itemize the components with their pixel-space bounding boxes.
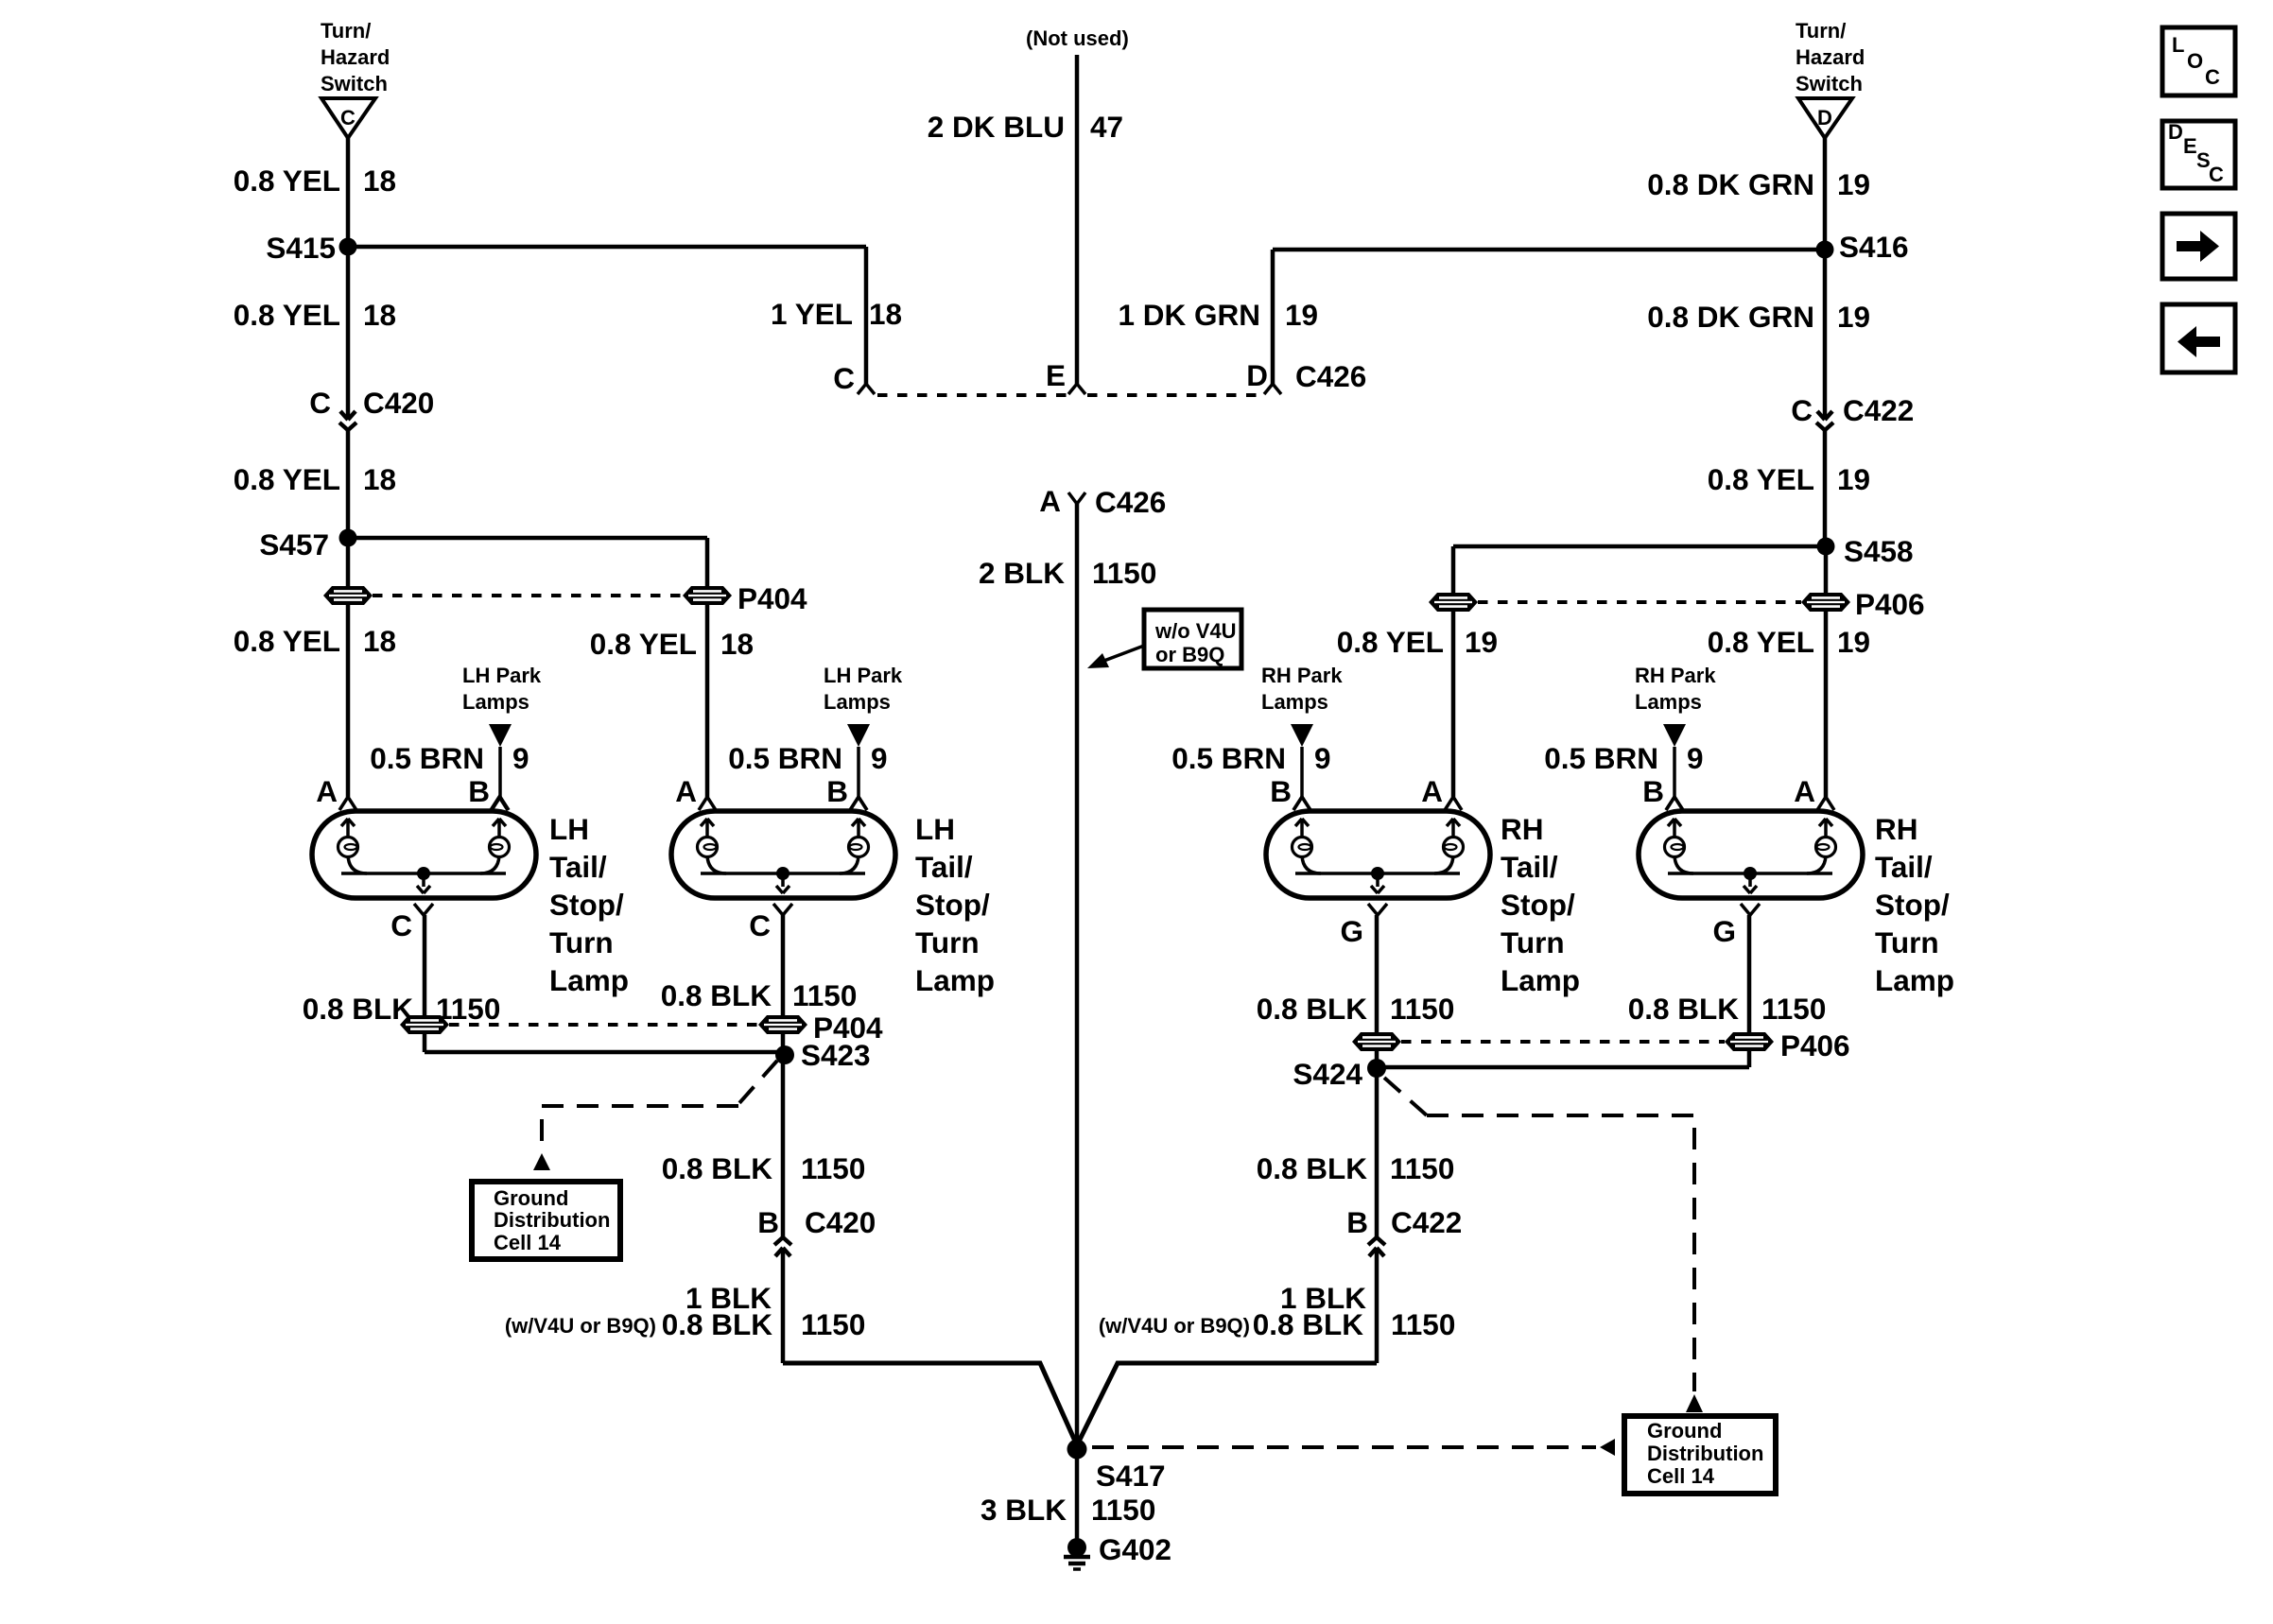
svg-text:O: O bbox=[2187, 49, 2203, 73]
svg-text:47: 47 bbox=[1090, 110, 1123, 144]
svg-text:Lamps: Lamps bbox=[824, 690, 891, 714]
svg-text:LH Park: LH Park bbox=[824, 664, 903, 687]
svg-text:Turn/: Turn/ bbox=[321, 19, 371, 43]
svg-text:0.8 YEL: 0.8 YEL bbox=[234, 164, 340, 198]
svg-text:Turn/: Turn/ bbox=[1796, 19, 1846, 43]
svg-text:Switch: Switch bbox=[321, 72, 388, 95]
svg-text:A: A bbox=[1421, 774, 1443, 808]
svg-text:9: 9 bbox=[871, 741, 888, 775]
svg-text:Turn: Turn bbox=[1501, 925, 1565, 959]
svg-text:C: C bbox=[749, 908, 771, 942]
svg-text:Lamp: Lamp bbox=[549, 963, 629, 997]
svg-text:1150: 1150 bbox=[1390, 1151, 1454, 1185]
svg-text:Lamps: Lamps bbox=[1635, 690, 1702, 714]
svg-text:0.8 YEL: 0.8 YEL bbox=[1708, 625, 1814, 659]
svg-text:Cell 14: Cell 14 bbox=[494, 1231, 562, 1254]
svg-text:Lamp: Lamp bbox=[915, 963, 995, 997]
svg-text:Cell 14: Cell 14 bbox=[1647, 1464, 1715, 1488]
svg-text:Tail/: Tail/ bbox=[915, 850, 973, 884]
svg-text:Distribution: Distribution bbox=[494, 1208, 610, 1232]
svg-text:0.8 DK GRN: 0.8 DK GRN bbox=[1647, 300, 1814, 334]
svg-text:D: D bbox=[1817, 106, 1832, 130]
svg-text:2 DK BLU: 2 DK BLU bbox=[928, 110, 1065, 144]
svg-text:9: 9 bbox=[1687, 741, 1704, 775]
svg-text:P406: P406 bbox=[1855, 587, 1925, 621]
svg-text:0.8 BLK: 0.8 BLK bbox=[303, 992, 414, 1026]
svg-text:or B9Q: or B9Q bbox=[1155, 643, 1224, 666]
svg-text:C: C bbox=[833, 361, 855, 395]
svg-text:1150: 1150 bbox=[1391, 1307, 1455, 1341]
svg-text:B: B bbox=[1270, 774, 1292, 808]
svg-text:Lamp: Lamp bbox=[1501, 963, 1580, 997]
svg-text:B: B bbox=[468, 774, 490, 808]
svg-text:S458: S458 bbox=[1844, 534, 1914, 568]
svg-text:C422: C422 bbox=[1843, 393, 1914, 427]
svg-text:0.8 BLK: 0.8 BLK bbox=[662, 1307, 773, 1341]
svg-text:1150: 1150 bbox=[1761, 992, 1826, 1026]
svg-text:0.8 YEL: 0.8 YEL bbox=[1708, 462, 1814, 496]
svg-text:A: A bbox=[1794, 774, 1815, 808]
svg-text:C: C bbox=[390, 908, 412, 942]
svg-text:1150: 1150 bbox=[1390, 992, 1454, 1026]
svg-text:Lamps: Lamps bbox=[1261, 690, 1328, 714]
svg-text:0.8 YEL: 0.8 YEL bbox=[234, 298, 340, 332]
svg-text:0.8 BLK: 0.8 BLK bbox=[662, 1151, 773, 1185]
svg-text:D: D bbox=[2168, 120, 2183, 144]
svg-text:Turn: Turn bbox=[915, 925, 980, 959]
svg-text:C: C bbox=[2205, 65, 2220, 89]
svg-text:LH Park: LH Park bbox=[462, 664, 542, 687]
svg-text:18: 18 bbox=[363, 462, 396, 496]
svg-text:w/o V4U: w/o V4U bbox=[1154, 619, 1237, 643]
svg-text:C426: C426 bbox=[1295, 359, 1366, 393]
svg-text:S424: S424 bbox=[1293, 1057, 1362, 1091]
svg-text:RH: RH bbox=[1875, 812, 1918, 846]
svg-text:0.5 BRN: 0.5 BRN bbox=[1544, 741, 1658, 775]
svg-text:S415: S415 bbox=[266, 231, 336, 265]
svg-text:Hazard: Hazard bbox=[1796, 45, 1865, 69]
svg-text:0.8 BLK: 0.8 BLK bbox=[1628, 992, 1740, 1026]
svg-text:Hazard: Hazard bbox=[321, 45, 390, 69]
svg-text:9: 9 bbox=[1314, 741, 1331, 775]
svg-text:2 BLK: 2 BLK bbox=[979, 556, 1065, 590]
svg-text:B: B bbox=[826, 774, 848, 808]
svg-text:A: A bbox=[675, 774, 697, 808]
svg-text:C420: C420 bbox=[363, 386, 434, 420]
svg-text:L: L bbox=[2172, 33, 2184, 57]
svg-text:C: C bbox=[1791, 393, 1813, 427]
svg-text:0.8 YEL: 0.8 YEL bbox=[234, 462, 340, 496]
svg-text:0.8 BLK: 0.8 BLK bbox=[1253, 1307, 1364, 1341]
svg-text:1 DK GRN: 1 DK GRN bbox=[1118, 298, 1260, 332]
svg-text:18: 18 bbox=[720, 627, 754, 661]
svg-text:G: G bbox=[1340, 914, 1363, 948]
svg-text:LH: LH bbox=[549, 812, 589, 846]
svg-text:0.5 BRN: 0.5 BRN bbox=[728, 741, 842, 775]
svg-text:Lamps: Lamps bbox=[462, 690, 529, 714]
svg-text:0.8 DK GRN: 0.8 DK GRN bbox=[1647, 167, 1814, 201]
svg-text:0.8 YEL: 0.8 YEL bbox=[234, 624, 340, 658]
svg-text:Stop/: Stop/ bbox=[1875, 888, 1950, 922]
svg-text:A: A bbox=[316, 774, 338, 808]
svg-text:18: 18 bbox=[363, 298, 396, 332]
svg-text:Turn: Turn bbox=[1875, 925, 1939, 959]
svg-text:1150: 1150 bbox=[801, 1307, 865, 1341]
svg-text:(w/V4U or B9Q): (w/V4U or B9Q) bbox=[1099, 1314, 1250, 1338]
svg-text:Ground: Ground bbox=[494, 1186, 568, 1210]
svg-text:C420: C420 bbox=[805, 1205, 876, 1239]
svg-text:Lamp: Lamp bbox=[1875, 963, 1954, 997]
svg-text:Distribution: Distribution bbox=[1647, 1442, 1763, 1465]
svg-text:E: E bbox=[1046, 358, 1066, 392]
svg-text:C: C bbox=[2209, 163, 2224, 186]
svg-text:Tail/: Tail/ bbox=[1875, 850, 1933, 884]
svg-text:B: B bbox=[1642, 774, 1664, 808]
svg-text:18: 18 bbox=[869, 297, 902, 331]
svg-text:B: B bbox=[1346, 1205, 1368, 1239]
svg-text:1150: 1150 bbox=[1091, 1493, 1155, 1527]
svg-text:P406: P406 bbox=[1780, 1028, 1850, 1063]
svg-text:LH: LH bbox=[915, 812, 955, 846]
svg-text:RH Park: RH Park bbox=[1635, 664, 1716, 687]
svg-text:18: 18 bbox=[363, 624, 396, 658]
svg-text:S423: S423 bbox=[801, 1038, 871, 1072]
svg-text:Tail/: Tail/ bbox=[1501, 850, 1558, 884]
svg-text:RH: RH bbox=[1501, 812, 1544, 846]
svg-text:RH Park: RH Park bbox=[1261, 664, 1343, 687]
svg-text:1150: 1150 bbox=[801, 1151, 865, 1185]
svg-text:Stop/: Stop/ bbox=[1501, 888, 1575, 922]
svg-text:19: 19 bbox=[1837, 167, 1870, 201]
svg-text:19: 19 bbox=[1465, 625, 1498, 659]
svg-text:0.5 BRN: 0.5 BRN bbox=[370, 741, 484, 775]
svg-text:S417: S417 bbox=[1096, 1459, 1166, 1493]
svg-text:9: 9 bbox=[512, 741, 529, 775]
svg-text:Ground: Ground bbox=[1647, 1419, 1722, 1443]
svg-text:A: A bbox=[1039, 484, 1061, 518]
svg-text:19: 19 bbox=[1837, 625, 1870, 659]
svg-text:Stop/: Stop/ bbox=[549, 888, 624, 922]
svg-text:19: 19 bbox=[1837, 300, 1870, 334]
svg-text:E: E bbox=[2183, 134, 2197, 158]
svg-text:D: D bbox=[1246, 358, 1268, 392]
svg-text:0.8 YEL: 0.8 YEL bbox=[1337, 625, 1444, 659]
svg-text:Stop/: Stop/ bbox=[915, 888, 990, 922]
svg-text:Tail/: Tail/ bbox=[549, 850, 607, 884]
svg-text:0.8 YEL: 0.8 YEL bbox=[590, 627, 697, 661]
svg-text:1 YEL: 1 YEL bbox=[771, 297, 853, 331]
svg-text:0.8 BLK: 0.8 BLK bbox=[1257, 1151, 1368, 1185]
svg-text:1150: 1150 bbox=[792, 978, 857, 1012]
svg-text:19: 19 bbox=[1837, 462, 1870, 496]
svg-text:0.8 BLK: 0.8 BLK bbox=[661, 978, 772, 1012]
svg-text:C: C bbox=[340, 106, 356, 130]
svg-text:0.5 BRN: 0.5 BRN bbox=[1171, 741, 1286, 775]
svg-text:(w/V4U or B9Q): (w/V4U or B9Q) bbox=[505, 1314, 656, 1338]
svg-text:0.8 BLK: 0.8 BLK bbox=[1257, 992, 1368, 1026]
svg-text:Turn: Turn bbox=[549, 925, 614, 959]
svg-text:1150: 1150 bbox=[436, 992, 500, 1026]
svg-text:1150: 1150 bbox=[1092, 556, 1156, 590]
svg-text:(Not used): (Not used) bbox=[1026, 26, 1129, 50]
svg-text:19: 19 bbox=[1285, 298, 1318, 332]
svg-text:3 BLK: 3 BLK bbox=[980, 1493, 1067, 1527]
svg-text:C422: C422 bbox=[1391, 1205, 1462, 1239]
svg-text:S457: S457 bbox=[259, 527, 329, 561]
svg-text:G: G bbox=[1712, 914, 1736, 948]
svg-text:G402: G402 bbox=[1099, 1532, 1171, 1566]
svg-text:Switch: Switch bbox=[1796, 72, 1863, 95]
svg-text:C426: C426 bbox=[1095, 485, 1166, 519]
svg-text:S416: S416 bbox=[1839, 230, 1909, 264]
svg-text:P404: P404 bbox=[737, 581, 807, 615]
svg-text:18: 18 bbox=[363, 164, 396, 198]
svg-text:C: C bbox=[309, 386, 331, 420]
svg-text:B: B bbox=[757, 1205, 779, 1239]
